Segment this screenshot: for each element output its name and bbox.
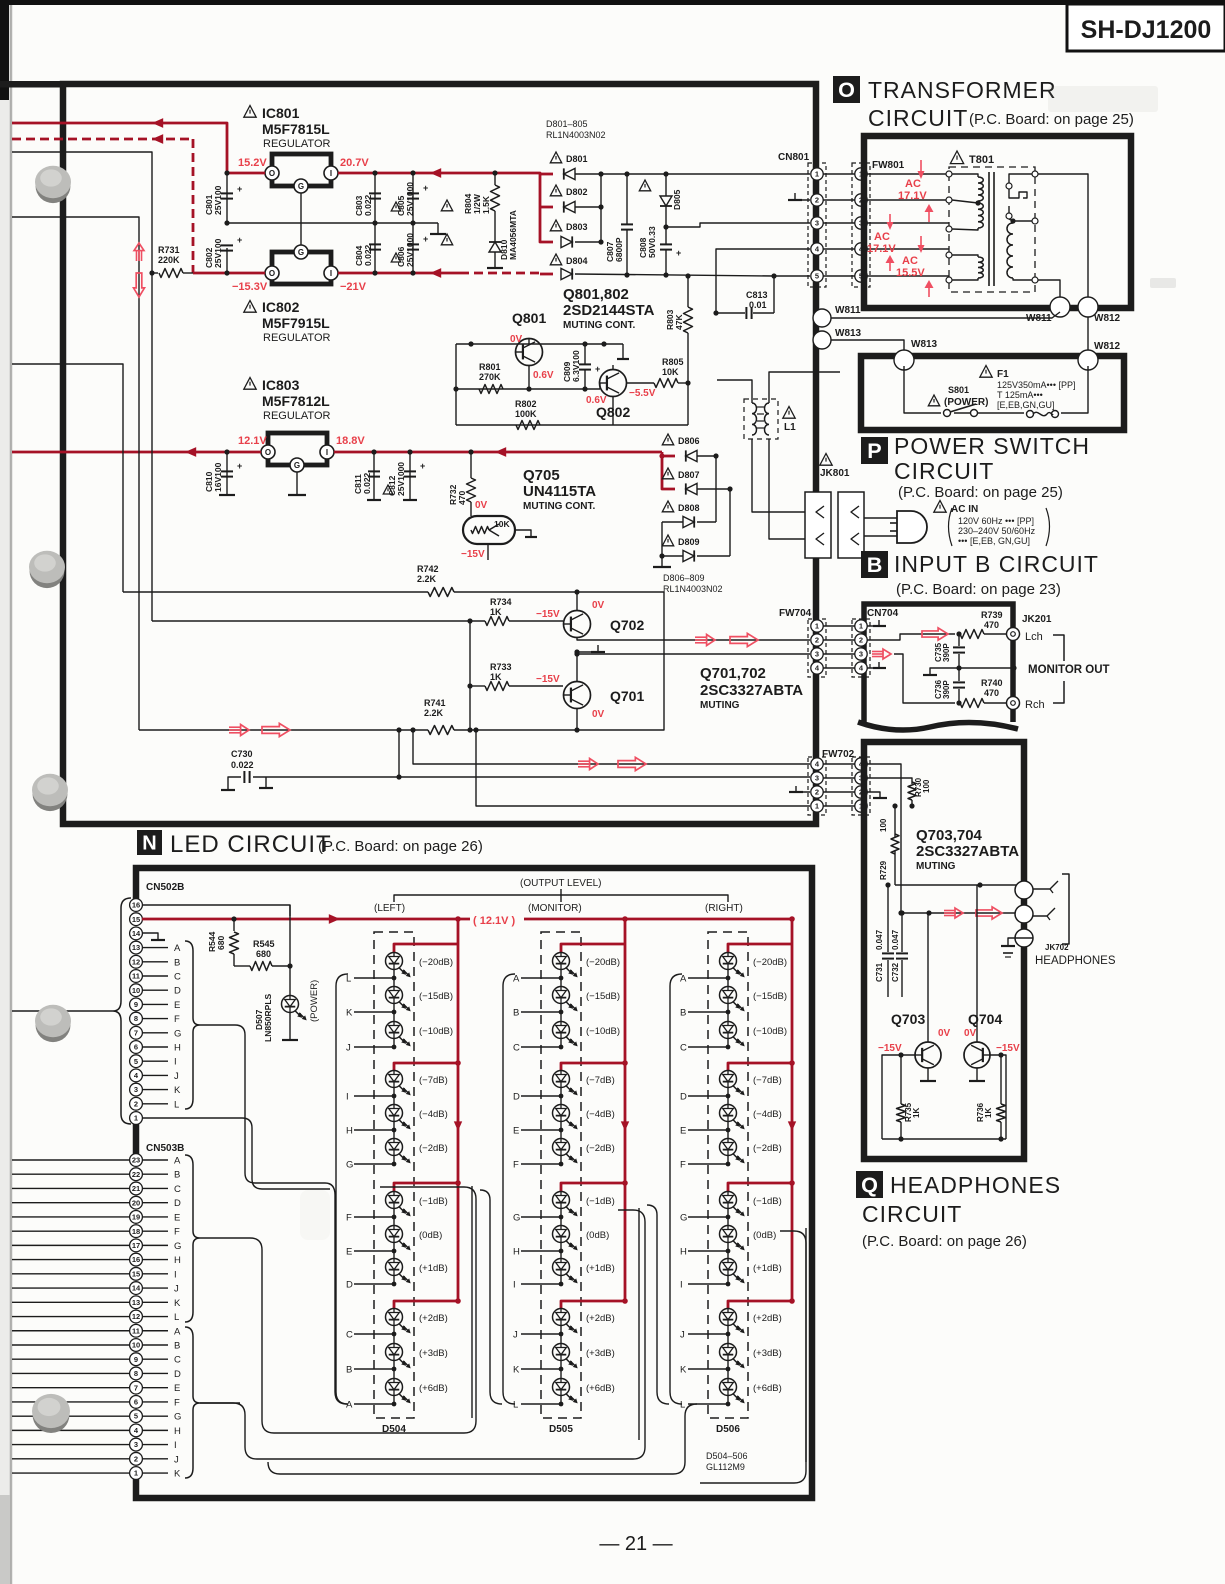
red group feed D505 group 3 (561, 1183, 625, 1191)
svg-text:F: F (513, 1160, 519, 1171)
svg-text:(MONITOR): (MONITOR) (528, 903, 582, 914)
voltage regulator IC801 (272, 154, 331, 186)
label L1 (783, 407, 795, 419)
Q701 collector wire to FW704 pin3 (577, 654, 810, 682)
svg-text:D808: D808 (678, 503, 700, 513)
LED D505 segment (-4dB) (553, 1105, 570, 1122)
svg-text:Rch: Rch (1025, 699, 1045, 711)
terminal W811 on main box border (813, 309, 831, 327)
svg-text:(LEFT): (LEFT) (374, 903, 405, 914)
letter stub A D504 (354, 1403, 394, 1405)
wire below LED D504 9 (393, 1276, 395, 1284)
wire to FW702 pin1 (476, 730, 810, 806)
resistor R730 100 (867, 778, 912, 784)
svg-text:21: 21 (132, 1184, 140, 1193)
svg-text:G: G (294, 461, 300, 470)
diode D806 (662, 434, 673, 445)
striped transfer arrow on pin3 wire (872, 650, 883, 652)
red feed bus for D505 column (622, 916, 628, 922)
svg-text:JK702: JK702 (1045, 943, 1069, 952)
svg-text:I: I (330, 169, 332, 178)
svg-text:D804: D804 (566, 256, 588, 266)
svg-text:GL112M9: GL112M9 (706, 1462, 745, 1472)
wire letter feed D505 (480, 1190, 502, 1404)
letter stub F D505 (521, 1163, 561, 1165)
wire below LED D504 7 (393, 1209, 395, 1217)
svg-text:A: A (346, 1400, 353, 1411)
resistor R735 1K (900, 1055, 902, 1104)
letter stub E D504 (354, 1250, 394, 1252)
svg-text:K: K (346, 1008, 353, 1019)
red bus to rectifier diodes (533, 173, 553, 242)
power switch inner wires (904, 366, 941, 413)
wire CN502B pin16 (142, 905, 290, 916)
svg-text:F: F (346, 1213, 352, 1224)
svg-text:POWER SWITCH: POWER SWITCH (894, 433, 1090, 459)
red arrow down on D506 bus (788, 1121, 796, 1131)
hollow transfer arrow down on left wire (134, 273, 145, 297)
svg-text:W812: W812 (1094, 341, 1121, 352)
svg-text:10K: 10K (662, 367, 679, 377)
wire to power LED (289, 905, 291, 966)
capacitor C732 0.047 (899, 910, 904, 915)
top rule extension to page edge (0, 81, 63, 88)
svg-text:T 125mA•••: T 125mA••• (997, 390, 1043, 400)
wire loop D506 right return (700, 1231, 806, 1483)
T801 secondary terminals (1032, 171, 1038, 177)
svg-text:D: D (680, 1092, 687, 1103)
AC plug (897, 511, 927, 543)
red wire +15.2V rail top left (12, 123, 265, 173)
svg-text:MUTING: MUTING (916, 861, 956, 872)
L1 coils (752, 403, 757, 435)
capacitor C731 0.047 (885, 882, 890, 887)
LED D504 segment (-1dB) (386, 1192, 403, 1209)
svg-text:D: D (174, 1369, 181, 1380)
svg-text:Q: Q (861, 1172, 878, 1197)
letter stub C D505 (521, 1046, 561, 1048)
svg-text:G: G (298, 248, 304, 257)
svg-text:680: 680 (256, 949, 271, 959)
wires CN801 pins3-5 to FW801 (823, 222, 855, 224)
svg-text:20: 20 (132, 1198, 140, 1207)
svg-text:5: 5 (134, 1057, 138, 1066)
svg-text:(−1dB): (−1dB) (586, 1196, 615, 1207)
Q704 collector wire (976, 885, 978, 1042)
svg-text:2: 2 (815, 788, 819, 797)
svg-text:22: 22 (132, 1170, 140, 1179)
LED D505 segment (-1dB) (553, 1192, 570, 1209)
red group feed D505 group 1 (561, 944, 625, 952)
svg-text:J: J (174, 1071, 179, 1082)
svg-text:15.2V: 15.2V (238, 157, 267, 169)
capacitor C811 0.022 (373, 452, 375, 500)
IC803 label (244, 378, 256, 390)
svg-text:IC803: IC803 (262, 377, 300, 393)
red wire 12.1V bus from CN502B pin15 (142, 918, 792, 921)
svg-text:2: 2 (815, 196, 819, 205)
svg-text:25V100: 25V100 (213, 185, 223, 215)
svg-text:8: 8 (134, 1014, 138, 1023)
wire below LED D504 3 (393, 1039, 395, 1047)
svg-text:H: H (174, 1043, 181, 1054)
LED D504 segment (-7dB) (386, 1071, 403, 1088)
svg-text:W811: W811 (835, 305, 861, 316)
svg-text:Q704: Q704 (968, 1011, 1002, 1027)
svg-text:MUTING CONT.: MUTING CONT. (523, 501, 595, 512)
svg-text:1: 1 (859, 622, 863, 631)
svg-text:D805: D805 (672, 189, 682, 210)
wire below LED D504 12 (393, 1396, 395, 1404)
diode D809 (662, 535, 673, 546)
model label box SH-DJ1200 (1067, 4, 1225, 51)
T801 secondary top wire (1038, 174, 1088, 300)
LED block D506 dashed outline (708, 932, 748, 1418)
svg-text:R545: R545 (253, 939, 275, 949)
svg-text:O: O (269, 269, 275, 278)
svg-text:(−4dB): (−4dB) (586, 1109, 615, 1120)
jack JK201 Rch (1007, 697, 1020, 710)
letter stub I D506 (688, 1283, 728, 1285)
punch hole 5 (33, 1397, 70, 1433)
LED D505 segment (-10dB) (553, 1022, 570, 1039)
svg-text:R802: R802 (515, 399, 537, 409)
svg-text:G: G (174, 1241, 181, 1252)
T801 secondary bottom wire to W811 (1038, 280, 1060, 300)
svg-text:HEADPHONES: HEADPHONES (890, 1172, 1061, 1198)
letter stub C D504 (354, 1333, 394, 1335)
svg-text:(−2dB): (−2dB) (586, 1143, 615, 1154)
svg-text:— 21 —: — 21 — (599, 1533, 672, 1555)
svg-text:2SC3327ABTA: 2SC3327ABTA (916, 843, 1019, 860)
svg-text:CN502B: CN502B (146, 882, 184, 893)
red group feed D506 group 3 (728, 1183, 792, 1191)
svg-text:FW801: FW801 (872, 160, 905, 171)
letter stub G D506 (688, 1216, 728, 1218)
punch hole 2 (30, 554, 65, 588)
svg-text:H: H (346, 1126, 353, 1137)
svg-text:(−15dB): (−15dB) (586, 991, 620, 1002)
svg-text:G: G (513, 1213, 520, 1224)
svg-text:(−2dB): (−2dB) (419, 1143, 448, 1154)
svg-text:A: A (174, 1156, 181, 1167)
svg-text:F: F (174, 1014, 180, 1025)
svg-text:8: 8 (134, 1369, 138, 1378)
letter stub L D504 (354, 977, 394, 979)
wire W811 to transformer box (831, 312, 1060, 318)
svg-text:O: O (269, 169, 275, 178)
LED block D505 dashed outline (541, 932, 581, 1418)
svg-text:15: 15 (132, 915, 140, 924)
svg-text:(P.C. Board: on page 25): (P.C. Board: on page 25) (898, 484, 1063, 501)
wires FW801 pins to transformer (867, 173, 949, 175)
label JK801 (820, 454, 832, 466)
capacitor C735 390P (958, 634, 960, 646)
wire below LED D505 4 (560, 1088, 562, 1096)
wire W812 transformer to power switch box (1087, 317, 1089, 352)
svg-text:D: D (346, 1280, 353, 1291)
svg-text:(+1dB): (+1dB) (586, 1263, 615, 1274)
red arrow on 12.1V bus near pin15 (329, 914, 340, 924)
jack JK702 terminals (1015, 881, 1033, 899)
svg-text:E: E (513, 1126, 519, 1137)
wire CN702 pin4 into headphones box (867, 764, 901, 913)
svg-text:CIRCUIT: CIRCUIT (862, 1201, 962, 1227)
svg-text:A: A (680, 974, 687, 985)
hollow transfer arrow on Lch wire (922, 628, 948, 640)
LED D504 segment (+2dB) (386, 1309, 403, 1326)
svg-text:G: G (298, 182, 304, 191)
capacitor C736 390P (958, 668, 960, 681)
svg-text:0.022: 0.022 (231, 760, 254, 770)
svg-text:J: J (174, 1284, 179, 1295)
svg-text:R731: R731 (158, 245, 180, 255)
LED D506 segment (-4dB) (720, 1105, 737, 1122)
wire CN502B pin1 (142, 1118, 330, 1189)
wire below LED D504 1 (393, 970, 395, 978)
T801 primary winding 3 (952, 255, 978, 257)
Q801 circuit mid rail (456, 388, 600, 390)
mid ground rail between IC801 and IC802 (227, 222, 438, 224)
svg-text:0V: 0V (964, 1028, 977, 1039)
svg-text:+: + (595, 364, 600, 374)
wire bracket right side D505 (638, 1208, 640, 1440)
LED D506 segment (-15dB) (720, 987, 737, 1004)
svg-text:D: D (513, 1092, 520, 1103)
voltage regulator IC802 (272, 252, 331, 284)
section heading N LED CIRCUIT (137, 830, 162, 855)
svg-text:0.047: 0.047 (891, 929, 900, 950)
svg-text:C732: C732 (891, 962, 900, 982)
diode D804 (550, 254, 561, 265)
brace right of CN503B letters group2 (185, 1327, 200, 1478)
ground at mid rail (437, 223, 439, 234)
svg-text:D807: D807 (678, 470, 700, 480)
wire below LED D506 8 (727, 1243, 729, 1251)
svg-text:3: 3 (134, 1085, 138, 1094)
letter stub J D506 (688, 1333, 728, 1335)
wire below LED D505 1 (560, 970, 562, 978)
svg-text:JK201: JK201 (1022, 614, 1052, 625)
svg-text:I: I (680, 1280, 683, 1291)
IC801 G pin wire (300, 193, 302, 223)
LED D504 segment (+1dB) (386, 1259, 403, 1276)
svg-text:12.1V: 12.1V (238, 435, 267, 447)
diode D807 (662, 468, 673, 479)
T801 secondary winding (1009, 219, 1013, 223)
svg-text:C813: C813 (746, 290, 768, 300)
svg-text:REGULATOR: REGULATOR (263, 138, 330, 150)
svg-text:(+3dB): (+3dB) (586, 1348, 615, 1359)
red group feed D504 group 4 (394, 1301, 458, 1308)
svg-text:L1: L1 (784, 422, 796, 433)
letter stub J D504 (354, 1046, 394, 1048)
svg-text:16: 16 (132, 901, 140, 910)
svg-text:SH-DJ1200: SH-DJ1200 (1081, 16, 1212, 44)
red group feed D506 group 4 (728, 1301, 792, 1308)
red wire 15.2V to 20.7V rail through IC801 (338, 172, 533, 175)
letter stub D D504 (354, 1283, 394, 1285)
wire below LED D505 2 (560, 1004, 562, 1012)
top page edge black band (0, 0, 1225, 5)
capacitor C810 16V100 (226, 452, 228, 495)
wire R734 rail to R741 rail vertical (469, 621, 471, 730)
wire D801-D803 junction vertical (600, 174, 602, 242)
section heading B INPUT B CIRCUIT (861, 551, 888, 578)
svg-text:FW702: FW702 (822, 749, 855, 760)
svg-text:(P.C. Board: on page 25): (P.C. Board: on page 25) (969, 111, 1134, 128)
svg-text:270K: 270K (479, 372, 501, 382)
Q703 base wire down left (882, 1055, 915, 1139)
IC803 G pin wire and ground (296, 472, 298, 495)
svg-text:S801: S801 (948, 385, 969, 395)
svg-text:L: L (513, 1400, 518, 1411)
wire below LED D505 5 (560, 1122, 562, 1130)
svg-text:10: 10 (132, 1341, 140, 1350)
svg-text:I: I (174, 1269, 177, 1280)
red arrow on top rail (152, 118, 163, 128)
svg-text:2: 2 (134, 1099, 138, 1108)
wire below LED D505 11 (560, 1361, 562, 1369)
red group feed D505 group 4 (561, 1301, 625, 1308)
wire below LED D504 8 (393, 1243, 395, 1251)
svg-text:25V1000: 25V1000 (396, 462, 406, 496)
capacitor C806 25V1000 (412, 223, 414, 273)
svg-text:1K: 1K (490, 607, 502, 617)
Q703 emitter ground (927, 1068, 929, 1081)
svg-text:Q701,702: Q701,702 (700, 665, 766, 682)
svg-text:+: + (423, 183, 428, 193)
letter stub K D506 (688, 1368, 728, 1370)
diode D802 (550, 185, 561, 196)
svg-text:0V: 0V (592, 600, 605, 611)
svg-text:+: + (237, 461, 242, 471)
punch hole 1 (36, 169, 71, 203)
terminal W812 on power switch box (1078, 350, 1098, 370)
svg-text:(0dB): (0dB) (586, 1230, 609, 1241)
svg-text:H: H (174, 1255, 181, 1266)
wire below LED D505 3 (560, 1039, 562, 1047)
letter stub E D506 (688, 1129, 728, 1131)
svg-text:+: + (237, 184, 242, 194)
resistor R803 47K (687, 276, 689, 307)
svg-text:INPUT B CIRCUIT: INPUT B CIRCUIT (894, 551, 1099, 577)
wire bracket around D506 letters (670, 974, 682, 1404)
svg-text:D809: D809 (678, 537, 700, 547)
letter stub D D505 (521, 1095, 561, 1097)
svg-text:0.047: 0.047 (875, 929, 884, 950)
svg-text:J: J (680, 1330, 685, 1341)
svg-text:H: H (513, 1247, 520, 1258)
svg-text:RL1N4003N02: RL1N4003N02 (663, 584, 723, 594)
red group feed D506 group 2 (728, 1063, 792, 1070)
capacitor C809 6.3V100 (579, 363, 591, 365)
capacitor C812 25V1000 (409, 452, 411, 500)
letter stub K D504 (354, 1011, 394, 1013)
svg-text:+: + (237, 235, 242, 245)
T801 primary winding 2 (978, 203, 983, 228)
svg-text:C: C (174, 1184, 181, 1195)
svg-text:CN503B: CN503B (146, 1143, 184, 1154)
svg-text:K: K (174, 1085, 181, 1096)
svg-text:Q702: Q702 (610, 617, 644, 633)
red wire 18.8V to D806 D807 (662, 452, 675, 489)
svg-text:+: + (423, 234, 428, 244)
letter stub H D505 (521, 1250, 561, 1252)
red wire 18.8V rail (334, 451, 662, 454)
CN503B letter stubs group2 (142, 1330, 168, 1332)
svg-text:−5.5V: −5.5V (629, 388, 656, 399)
svg-text:(+2dB): (+2dB) (753, 1313, 782, 1324)
svg-text:(−4dB): (−4dB) (419, 1109, 448, 1120)
svg-text:R801: R801 (479, 362, 501, 372)
svg-text:J: J (346, 1043, 351, 1054)
svg-text:2: 2 (815, 636, 819, 645)
svg-text:100: 100 (879, 818, 888, 832)
Q704 emitter ground (976, 1068, 978, 1081)
svg-text:K: K (174, 1469, 181, 1480)
svg-text:6: 6 (134, 1043, 138, 1052)
Q704 base wire down right (990, 1055, 1006, 1139)
svg-text:17.1V: 17.1V (867, 243, 896, 255)
wire below LED D506 6 (727, 1156, 729, 1164)
headphones circuit box (864, 742, 1024, 1159)
svg-text:M5F7812L: M5F7812L (262, 393, 330, 409)
brace right of CN502B letters (185, 941, 200, 1109)
svg-text:Lch: Lch (1025, 631, 1043, 643)
LED D504 segment (+3dB) (386, 1344, 403, 1361)
svg-text:(−15dB): (−15dB) (753, 991, 787, 1002)
svg-text:AC IN: AC IN (951, 504, 978, 515)
svg-text:H: H (174, 1426, 181, 1437)
headphone ring rail (901, 912, 1017, 914)
svg-text:1: 1 (815, 170, 819, 179)
wire from CN502B brace to D504 letter bus (200, 1025, 347, 1404)
Q801 circuit left and bottom wires (455, 344, 457, 425)
digital transistor Q705 with internal resistor (463, 516, 515, 544)
svg-text:(−1dB): (−1dB) (753, 1196, 782, 1207)
svg-text:J: J (174, 1454, 179, 1465)
svg-text:Q705: Q705 (523, 467, 560, 484)
LED D504 segment (-15dB) (386, 987, 403, 1004)
svg-text:K: K (680, 1365, 687, 1376)
svg-text:W813: W813 (911, 339, 938, 350)
svg-text:(P.C. Board: on page 26): (P.C. Board: on page 26) (862, 1233, 1027, 1250)
LED D505 segment (-7dB) (553, 1071, 570, 1088)
red group feed D505 group 2 (561, 1063, 625, 1070)
wire from left edge y=152 down to R734 rail (12, 152, 152, 621)
svg-text:−15V: −15V (461, 549, 485, 560)
svg-text:M5F7915L: M5F7915L (262, 315, 330, 331)
svg-text:6800P: 6800P (614, 237, 624, 262)
svg-text:R805: R805 (662, 357, 684, 367)
svg-text:B: B (174, 1170, 180, 1181)
svg-text:W813: W813 (835, 328, 862, 339)
wire below LED D505 10 (560, 1326, 562, 1334)
svg-text:D801–805: D801–805 (546, 119, 588, 129)
capacitor C801 (226, 173, 228, 223)
svg-text:C: C (346, 1330, 353, 1341)
svg-text:I: I (513, 1280, 516, 1291)
svg-text:H: H (680, 1247, 687, 1258)
LED D506 segment (-10dB) (720, 1022, 737, 1039)
terminal W813 on power switch box (894, 350, 914, 370)
LED D506 segment (+3dB) (720, 1344, 737, 1361)
wire below LED D505 6 (560, 1156, 562, 1164)
svg-text:JK801: JK801 (820, 468, 850, 479)
svg-text:25V100: 25V100 (213, 238, 223, 268)
svg-text:LED CIRCUIT: LED CIRCUIT (170, 831, 332, 858)
